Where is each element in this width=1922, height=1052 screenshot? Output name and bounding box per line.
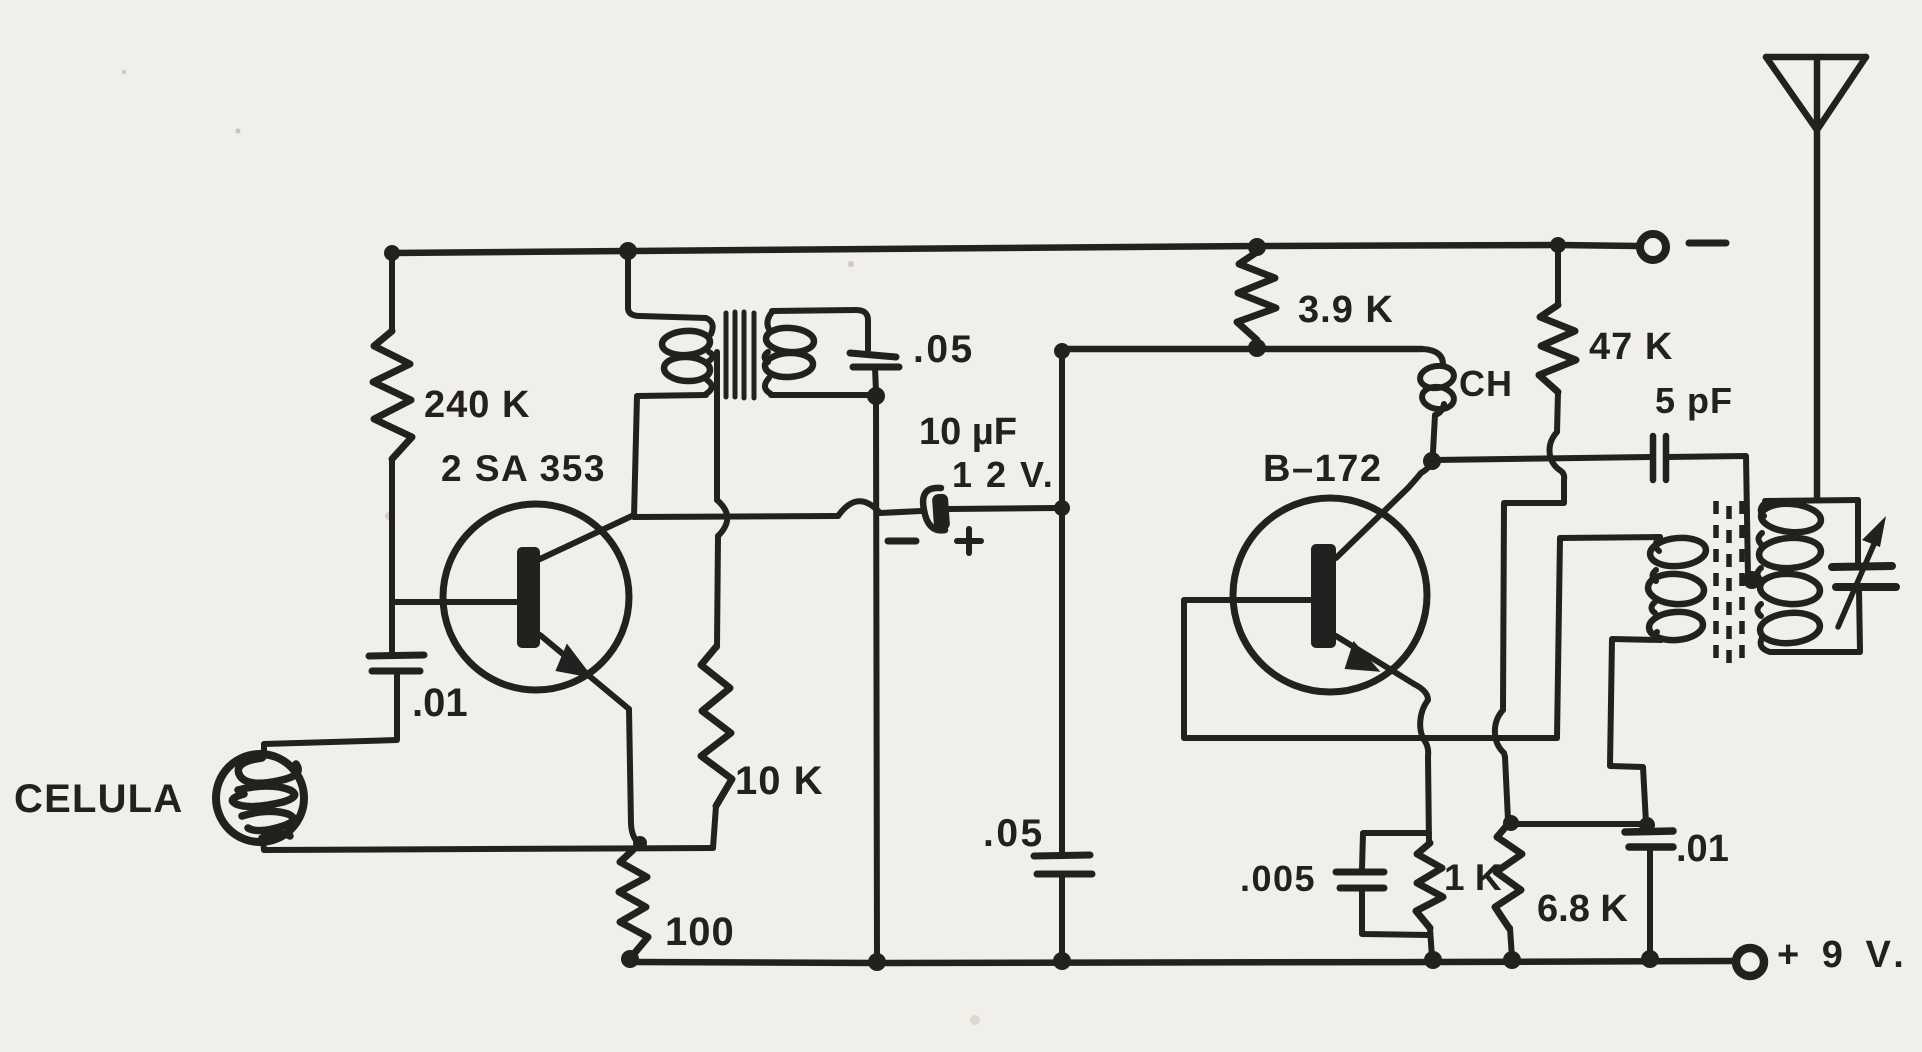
label battery plus: [957, 529, 981, 553]
terminal negative ring: [1640, 234, 1666, 260]
inductor L2 tank loop4: [1759, 610, 1821, 645]
svg-text:.005: .005: [1240, 858, 1316, 899]
capacitor C7 5pF plates: [1653, 436, 1666, 480]
transistor Q2 B-172 circle: [1233, 498, 1427, 692]
inductor L2 tank loop1: [1760, 501, 1822, 534]
arrowhead Q1 emitter: [555, 643, 595, 678]
label battery minus: [888, 538, 916, 545]
node 1K bottom: [1424, 951, 1442, 969]
wire 5pF to tank tap: [1666, 456, 1748, 577]
wire mid node line lower: [1059, 877, 1065, 959]
transformer T1 primary coil loop1: [661, 329, 711, 356]
resistor R6 1K: [1416, 843, 1443, 928]
svg-text:5 pF: 5 pF: [1655, 380, 1733, 421]
transistor Q1 2SA353 circle: [443, 504, 629, 690]
label .05 transformer: [913, 328, 975, 371]
wire tank bottom: [1770, 649, 1860, 655]
inductor CH loop2: [1421, 385, 1456, 411]
wire .01 lower lead: [1647, 849, 1653, 957]
node transformer bottom junction: [867, 387, 885, 405]
wire 6.8K to .01 node: [1512, 821, 1646, 827]
wire feedback line to base: [1184, 735, 1557, 741]
svg-text:2 SA 353: 2 SA 353: [441, 448, 606, 489]
capacitor C5 .005 plates: [1336, 872, 1384, 888]
label 2 SA 353: [441, 448, 606, 489]
capacitor C8 variable plates: [1832, 566, 1896, 587]
wire Q2 base loop: [1184, 600, 1311, 737]
inductor CH loop1: [1419, 364, 1456, 391]
wire secondary bottom lead: [771, 392, 868, 398]
wire mid node line upper: [1059, 350, 1065, 852]
wire primary bottom to collector node: [634, 395, 706, 517]
photocell CELULA circle: [216, 754, 304, 842]
wire hop tap over collector rail: [717, 500, 727, 536]
label CH: [1459, 363, 1513, 404]
resistor R2 10K: [701, 647, 732, 806]
inductor L1 feedback loop3: [1648, 610, 1704, 642]
node mid battery junction: [1054, 500, 1070, 516]
label + 9 V.: [1777, 934, 1910, 976]
wire C1 to photocell: [264, 674, 397, 757]
label 1 K: [1444, 857, 1502, 898]
wire coil top lead: [1560, 537, 1660, 538]
svg-text:6.8 K: 6.8 K: [1537, 888, 1628, 930]
transformer T1 secondary coil loop2: [764, 352, 813, 378]
wire 47K to 6.8K: [1505, 757, 1508, 820]
wire Q2 emitter down to 1K: [1428, 757, 1429, 843]
transformer T1 primary coil loop2: [663, 356, 710, 382]
antenna stem: [1814, 57, 1821, 500]
antenna right side: [1817, 57, 1866, 130]
label .01 value: [412, 681, 468, 725]
wire collector node to 5pF: [1434, 457, 1650, 460]
node 3.9K top: [1248, 238, 1266, 256]
inductor L1 feedback loop2: [1647, 572, 1705, 606]
svg-text:CH: CH: [1459, 363, 1513, 404]
transistor Q2 base bar: [1311, 544, 1336, 648]
wire top negative rail: [392, 245, 1638, 253]
node 6.8K bottom: [1503, 951, 1521, 969]
resistor R7 6.8K: [1495, 823, 1522, 928]
svg-text:1 K: 1 K: [1444, 857, 1502, 898]
wire 47K hop over base line: [1495, 710, 1505, 757]
node tank tap junction: [1743, 571, 1761, 589]
transformer T1 core bars: [726, 312, 754, 398]
svg-text:47 K: 47 K: [1589, 326, 1673, 368]
node bottom transformer line: [868, 953, 886, 971]
wire coil bottom to .01 node: [1610, 766, 1646, 823]
node .01 top junction: [1639, 817, 1655, 833]
label 10 uF: [919, 411, 1017, 453]
wire transformer primary top lead: [628, 251, 706, 318]
wire .005 box bottom: [1362, 890, 1428, 935]
node 100 bottom: [621, 950, 639, 968]
capacitor C3 10uF solid plate: [932, 493, 950, 530]
svg-text:.05: .05: [913, 328, 975, 371]
photocell squiggle element: [232, 758, 298, 838]
inductor L1 hooks: [1652, 537, 1662, 640]
capacitor C3 10uF curved plate: [923, 488, 945, 530]
wire .005 box top: [1362, 833, 1429, 869]
wire bottom positive rail: [630, 961, 1734, 963]
wire 10K lower lead: [713, 806, 716, 848]
node 47K top: [1550, 237, 1566, 253]
antenna top bar: [1766, 54, 1866, 61]
wire hop collector rail over node line: [838, 501, 880, 516]
wire C2 bottom lead: [875, 367, 876, 392]
wire rail to battery plate: [880, 511, 921, 513]
node 6.8K top: [1503, 815, 1519, 831]
label 240 K: [424, 384, 530, 426]
wire 240K to base node: [389, 459, 395, 651]
wire Q1 base lead: [392, 599, 517, 605]
capacitor C6 .01 plates: [1625, 831, 1673, 847]
wire photocell bottom to emitter rail: [263, 840, 713, 850]
wire transformer tap down: [714, 352, 720, 500]
antenna left side: [1766, 57, 1817, 130]
resistor R3 100: [619, 850, 648, 955]
arrowhead Q2 emitter: [1345, 640, 1384, 673]
svg-text:10 µF: 10 µF: [919, 411, 1017, 453]
resistor R4 3.9K: [1237, 252, 1276, 340]
wire secondary top lead: [772, 310, 868, 350]
label 5 pF: [1655, 380, 1733, 421]
svg-text:CELULA: CELULA: [14, 777, 183, 821]
wire collector rail: [634, 516, 838, 517]
svg-text:+ 9 V.: + 9 V.: [1777, 934, 1910, 976]
label .05 mid: [983, 812, 1045, 855]
label CELULA: [14, 777, 183, 821]
transformer T1 primary hooks: [706, 318, 713, 394]
wire node line down to bottom rail: [876, 396, 877, 960]
inductor L2 tank loop3: [1759, 572, 1821, 606]
label minus terminal: [1689, 240, 1726, 247]
transformer T1 secondary coil loop1: [765, 326, 815, 353]
arrow variable capacitor: [1838, 516, 1886, 627]
label 6.8 K: [1537, 888, 1628, 930]
resistor R1 240K: [373, 331, 412, 459]
wire 6.8K lower lead: [1510, 928, 1512, 958]
inductor CH hook: [1422, 349, 1443, 366]
svg-text:B–172: B–172: [1263, 448, 1382, 490]
node mid rail corner: [1054, 343, 1070, 359]
inductor L2 tank loop2: [1758, 536, 1822, 570]
svg-text:.05: .05: [983, 812, 1045, 855]
label 3.9 K: [1298, 289, 1394, 331]
label B-172: [1263, 448, 1382, 490]
svg-text:100: 100: [665, 910, 735, 954]
wire 47K upper lead: [1555, 245, 1561, 305]
wire second rail: [1062, 346, 1422, 353]
svg-text:1 2 V.: 1 2 V.: [952, 454, 1055, 495]
svg-text:.01: .01: [1676, 828, 1729, 870]
wire tank top: [1765, 500, 1858, 501]
label .01 right: [1676, 828, 1729, 870]
core dashed lines tank transformer: [1716, 501, 1742, 665]
wire 240K upper lead: [389, 253, 395, 331]
label .005: [1240, 858, 1316, 899]
wire 47K jog left: [1503, 503, 1564, 710]
transformer T1 secondary hooks: [765, 312, 773, 394]
resistor R5 47K: [1539, 305, 1576, 392]
capacitor C1 .01 plates: [369, 655, 424, 671]
node Q2 collector junction: [1423, 452, 1441, 470]
node Q1 emitter at rail: [633, 836, 647, 850]
terminal positive ring: [1736, 948, 1764, 976]
node junction transformer feed: [619, 242, 637, 260]
wire Q2 emitter lead: [1336, 636, 1414, 684]
wire Q2 collector lead: [1336, 461, 1431, 558]
wire tap to 10K: [717, 536, 718, 647]
wire feedback line up: [1557, 538, 1560, 738]
node 3.9K bottom: [1248, 339, 1266, 357]
capacitor C4 .05 plates: [1034, 855, 1092, 874]
wire coil bottom lead: [1610, 639, 1661, 765]
wire 47K hop over collector wire: [1550, 392, 1565, 502]
wire Q1 emitter lead: [540, 635, 629, 709]
wire Q1 collector lead: [540, 515, 634, 559]
node junction top-left corner: [384, 245, 400, 261]
label 12 V: [952, 454, 1055, 495]
wire Q2 emitter jog: [1414, 684, 1428, 757]
wire 1K lower lead: [1430, 928, 1432, 958]
inductor L2 hooks: [1758, 503, 1771, 652]
capacitor C2 .05 plates: [850, 353, 899, 367]
wire battery to mid line: [949, 508, 1056, 509]
label 47 K: [1589, 326, 1673, 368]
node .01 bottom: [1641, 950, 1659, 968]
wire tank top right to varcap: [1855, 500, 1861, 562]
svg-text:3.9 K: 3.9 K: [1298, 289, 1394, 331]
label 100 value: [665, 910, 735, 954]
transistor Q1 base bar: [517, 547, 540, 648]
label 10 K: [735, 759, 824, 803]
svg-text:240 K: 240 K: [424, 384, 530, 426]
svg-text:10 K: 10 K: [735, 759, 824, 803]
inductor CH exit: [1433, 404, 1444, 452]
inductor L1 feedback loop1: [1649, 536, 1707, 569]
wire Q1 emitter down: [629, 709, 643, 846]
node bottom mid cap line: [1053, 952, 1071, 970]
svg-text:.01: .01: [412, 681, 468, 725]
wire varcap bottom: [1859, 590, 1860, 651]
